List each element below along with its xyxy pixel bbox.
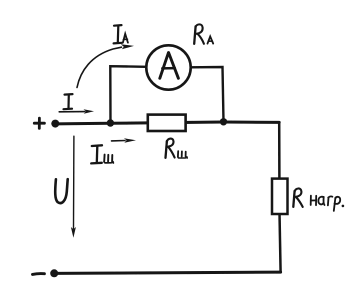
node junction J1 shunt branch <box>107 119 114 126</box>
arrow for Ish <box>112 140 126 142</box>
resistor Rnagr body <box>272 179 288 214</box>
wire right vertical to load <box>278 122 281 180</box>
label Rsh <box>166 139 175 158</box>
wire load to bottom corner <box>280 213 281 272</box>
ammeter A circle <box>146 45 190 89</box>
label Ish <box>91 145 102 163</box>
label Rnagr period <box>342 205 345 208</box>
node bottom terminal dot <box>50 269 58 277</box>
ammeter letter A <box>160 53 179 79</box>
label U <box>55 179 67 203</box>
arrow for U <box>73 136 75 228</box>
resistor Rsh body <box>148 115 186 131</box>
wire bottom (- rail) <box>54 272 280 273</box>
arrow for I <box>59 111 85 113</box>
label Rnagr <box>293 188 302 206</box>
label minus terminal <box>33 272 45 276</box>
label IA <box>114 25 122 43</box>
wire ammeter output down to junction J2 <box>191 67 224 122</box>
wire branch up to ammeter <box>110 66 146 123</box>
node junction J2 ammeter return <box>220 118 227 125</box>
node left terminal dot <box>51 120 59 128</box>
label I total current <box>64 94 73 109</box>
wire main horizontal (+ rail) <box>55 122 279 124</box>
arrow curved IA <box>77 47 122 87</box>
label RA <box>194 24 204 43</box>
label plus terminal <box>34 118 44 128</box>
